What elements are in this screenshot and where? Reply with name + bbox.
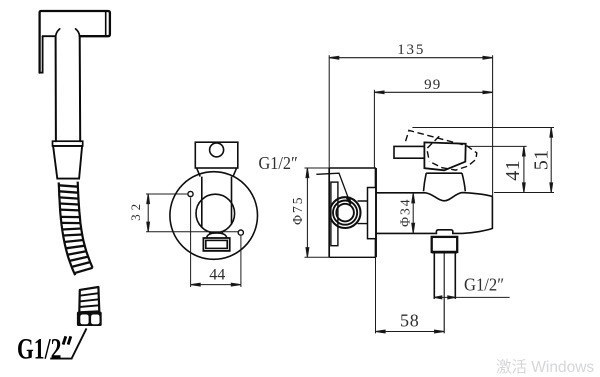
svg-text:41: 41: [502, 160, 524, 181]
svg-text:G1/2″: G1/2″: [464, 275, 504, 294]
svg-text:44: 44: [209, 267, 225, 284]
svg-text:G1/2″: G1/2″: [259, 154, 298, 174]
svg-text:32: 32: [128, 200, 143, 221]
svg-text:Φ75: Φ75: [290, 196, 305, 225]
svg-text:Φ34: Φ34: [398, 198, 413, 227]
svg-text:51: 51: [530, 149, 552, 170]
svg-text:135: 135: [397, 42, 425, 58]
svg-text:99: 99: [424, 77, 441, 93]
svg-text:G1/2: G1/2: [17, 332, 61, 365]
svg-text:58: 58: [400, 311, 420, 331]
